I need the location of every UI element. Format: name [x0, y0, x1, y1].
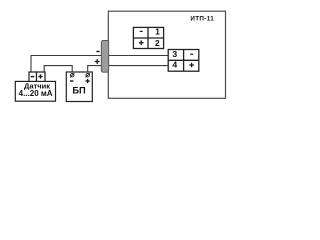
- TB1 pin number 2: [155, 38, 160, 48]
- terminal block TB1 outline (pins -1 +2): [133, 27, 163, 48]
- wire W2 (sensor plus to power supply left terminal): [44, 66, 72, 73]
- connector J1 (grey cable gland on box left edge): [101, 40, 108, 72]
- sensor terminal square minus: [29, 72, 37, 82]
- B2 screw terminal symbol right: [86, 73, 90, 77]
- svg-text:ИТП-11: ИТП-11: [190, 16, 214, 23]
- wire W3 (power supply plus terminal up and right to terminal 4): [88, 66, 168, 72]
- B2 label BP: [72, 86, 86, 96]
- svg-text:3: 3: [172, 49, 177, 59]
- label plus at connector: [95, 59, 100, 64]
- TB2 pin number 3: [172, 49, 177, 59]
- terminal block TB2 outline (pins 3- 4+): [168, 50, 199, 72]
- B2 screw terminal symbol left: [70, 73, 74, 77]
- svg-text:4: 4: [172, 60, 177, 70]
- TB1 sign minus pin1: [140, 31, 143, 32]
- label ITP-11: [190, 16, 214, 23]
- svg-text:1: 1: [155, 27, 160, 37]
- svg-text:БП: БП: [72, 86, 86, 96]
- TB2 pin number 4: [172, 60, 177, 70]
- label minus at connector: [96, 51, 99, 52]
- TB1 sign plus pin2: [139, 40, 144, 45]
- B2 polarity minus label: [70, 80, 73, 81]
- svg-text:2: 2: [155, 38, 160, 48]
- TB1 pin number 1: [155, 27, 160, 37]
- TB2 sign plus pin4: [189, 63, 194, 68]
- sensor terminal plus sign: [38, 74, 42, 78]
- device box U1 ITP-11: [108, 11, 225, 98]
- wire W1 (sensor minus up and right to terminal 3): [31, 56, 168, 73]
- sensor terminal square plus: [37, 72, 46, 82]
- sensor label line 1 Datchik: [24, 82, 50, 91]
- B2 polarity plus label: [86, 79, 90, 83]
- sensor label line 2 4-20 mA: [19, 89, 53, 98]
- TB2 sign minus pin3: [190, 54, 193, 55]
- sensor box B1: [15, 81, 55, 101]
- wire W1 segment inside box: [108, 55, 168, 57]
- sensor terminal minus sign: [31, 76, 34, 78]
- svg-text:4...20 мА: 4...20 мА: [19, 89, 53, 98]
- power supply box B2: [66, 72, 92, 102]
- wire W3 segment inside box: [108, 65, 168, 67]
